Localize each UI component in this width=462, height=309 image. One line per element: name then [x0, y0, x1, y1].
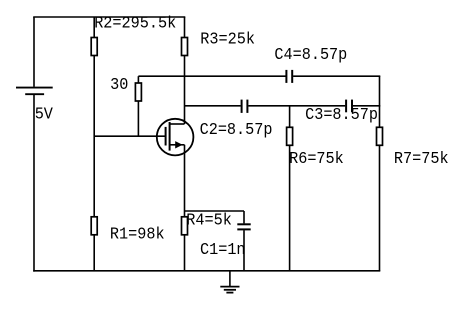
svg-text:C1=1n: C1=1n	[200, 240, 246, 259]
resistor R7	[377, 127, 383, 145]
svg-text:C3=8.57p: C3=8.57p	[305, 105, 378, 124]
wire top bus	[33, 16, 185, 18]
wire ground stub	[229, 271, 231, 286]
wire C2 line left	[185, 105, 241, 107]
resistor R1	[91, 217, 97, 235]
svg-text:30: 30	[110, 75, 128, 94]
svg-text:C2=8.57p: C2=8.57p	[200, 121, 273, 140]
svg-text:R1=98k: R1=98k	[110, 225, 165, 244]
wire gate line	[94, 135, 165, 137]
wire C4 line right	[293, 75, 380, 77]
resistor R2	[91, 38, 97, 56]
svg-text:R7=75k: R7=75k	[394, 150, 449, 169]
wire resistor-30 stub	[137, 76, 139, 136]
wire battery top lead	[33, 17, 35, 87]
wire C3 line right	[353, 105, 380, 107]
wire drain column	[184, 17, 186, 124]
wire R7 column	[379, 76, 381, 271]
wire R6 column	[289, 106, 291, 271]
capacitor C1	[237, 224, 250, 229]
svg-text:R3=25k: R3=25k	[200, 30, 255, 49]
svg-text:C4=8.57p: C4=8.57p	[274, 46, 347, 65]
svg-text:R2=295.5k: R2=295.5k	[94, 14, 176, 33]
wire bottom bus	[33, 270, 380, 272]
resistor 30	[135, 83, 141, 101]
wire C1 branch horizontal	[185, 210, 245, 212]
wire C1 top stub	[243, 211, 245, 223]
wire C4 line left	[138, 75, 285, 77]
capacitor C4	[286, 70, 292, 83]
svg-text:R6=75k: R6=75k	[289, 150, 344, 169]
svg-text:5V: 5V	[35, 105, 54, 124]
wire battery bottom lead	[33, 94, 35, 271]
wire R2/R1 column	[93, 17, 95, 271]
resistor R4	[182, 217, 188, 235]
wire source column	[184, 145, 186, 271]
transistor M1	[157, 119, 194, 156]
capacitor C3	[346, 100, 352, 113]
wire C1 bottom stub	[243, 230, 245, 271]
svg-text:R4=5k: R4=5k	[186, 211, 232, 230]
capacitor C2	[242, 100, 248, 113]
resistor R6	[287, 127, 293, 145]
battery V1 5V	[16, 88, 53, 95]
resistor R3	[182, 38, 188, 56]
ground	[220, 287, 239, 293]
wire C2-C3 line middle	[248, 105, 345, 107]
